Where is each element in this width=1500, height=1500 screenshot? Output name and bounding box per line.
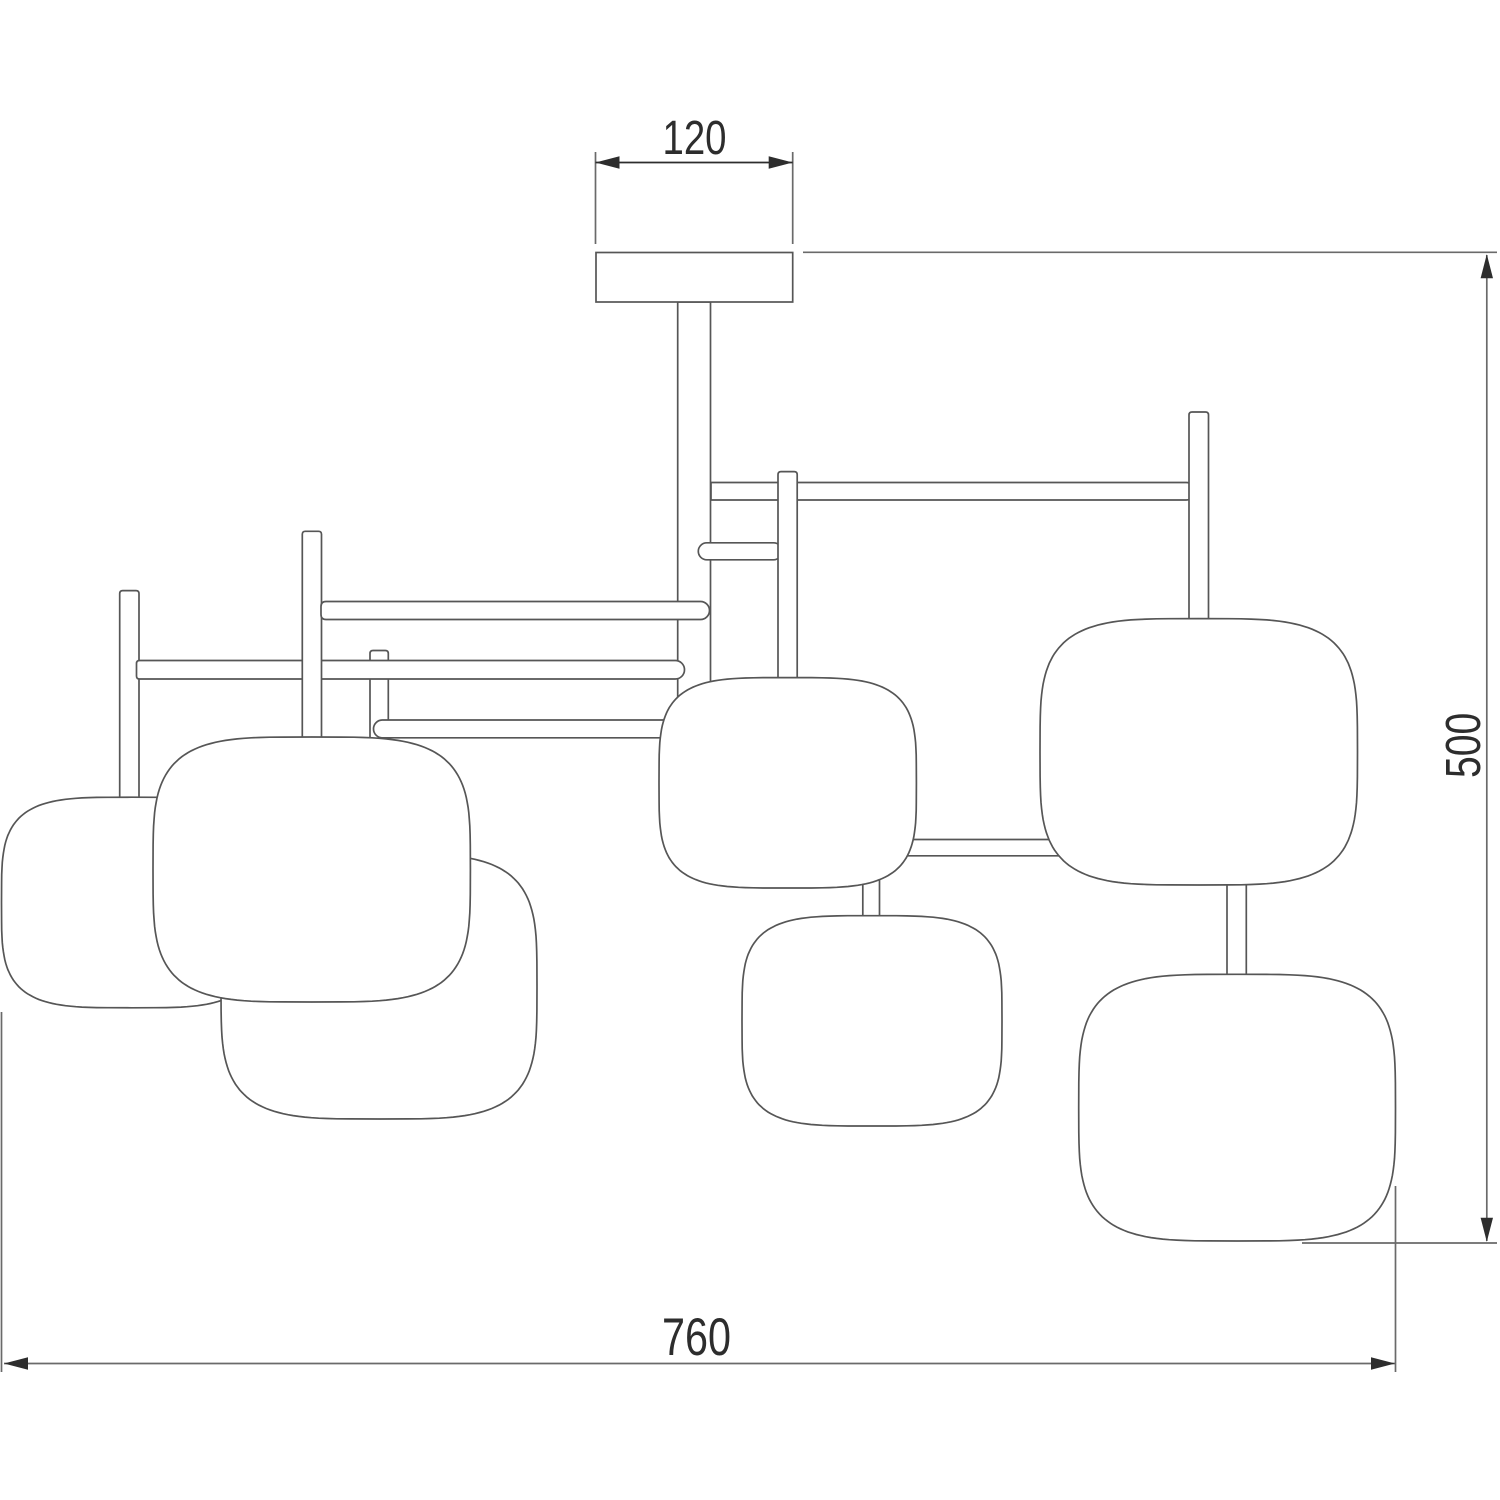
connector rod shade5-shade7 xyxy=(1227,874,1246,980)
dim 500: dimension line xyxy=(1486,255,1488,1241)
arm F (bar between center and right shades) xyxy=(900,840,1065,856)
arm D (long left arm, lower) xyxy=(137,661,685,680)
dim 760: extension lines xyxy=(1,1012,3,1372)
canopy (ceiling mount plate) xyxy=(596,253,793,303)
lampshade 1 (far left, back) xyxy=(2,797,262,1008)
svg-text:760: 760 xyxy=(662,1308,731,1367)
arm E (left lower arm to hidden rod) xyxy=(374,720,691,738)
rod R2 (center vertical rod) xyxy=(778,472,797,695)
dim 500: extension lines xyxy=(803,251,1497,253)
stem (central down tube) xyxy=(678,302,711,700)
rod R1 (right vertical rod) xyxy=(1189,412,1209,630)
rod R5 (left-middle short rod) xyxy=(370,651,388,743)
svg-text:120: 120 xyxy=(663,111,727,165)
arm C (long left arm, upper) xyxy=(321,602,710,620)
dim 120: extension lines xyxy=(595,152,597,244)
lampshade 2 (left big, front) xyxy=(153,737,470,1002)
arm B (short middle arm) xyxy=(698,543,782,560)
lampshade 6 (center lower) xyxy=(742,916,1002,1126)
connector rod shade4-shade6 xyxy=(863,874,880,922)
lampshade 3 (left lower) xyxy=(221,854,537,1119)
dim 120: dimension line xyxy=(596,162,793,164)
lampshade 7 (right big lower) xyxy=(1079,974,1396,1241)
rod R4 (far left vertical rod) xyxy=(120,591,139,805)
svg-text:500: 500 xyxy=(1436,713,1491,778)
rod R3 (left vertical rod) xyxy=(302,531,321,742)
dim 760: dimension line xyxy=(4,1363,1395,1365)
lampshade 4 (center upper) xyxy=(659,678,916,888)
arm A (top right horizontal arm) xyxy=(711,483,1195,501)
lampshade 5 (right big upper) xyxy=(1040,619,1358,885)
